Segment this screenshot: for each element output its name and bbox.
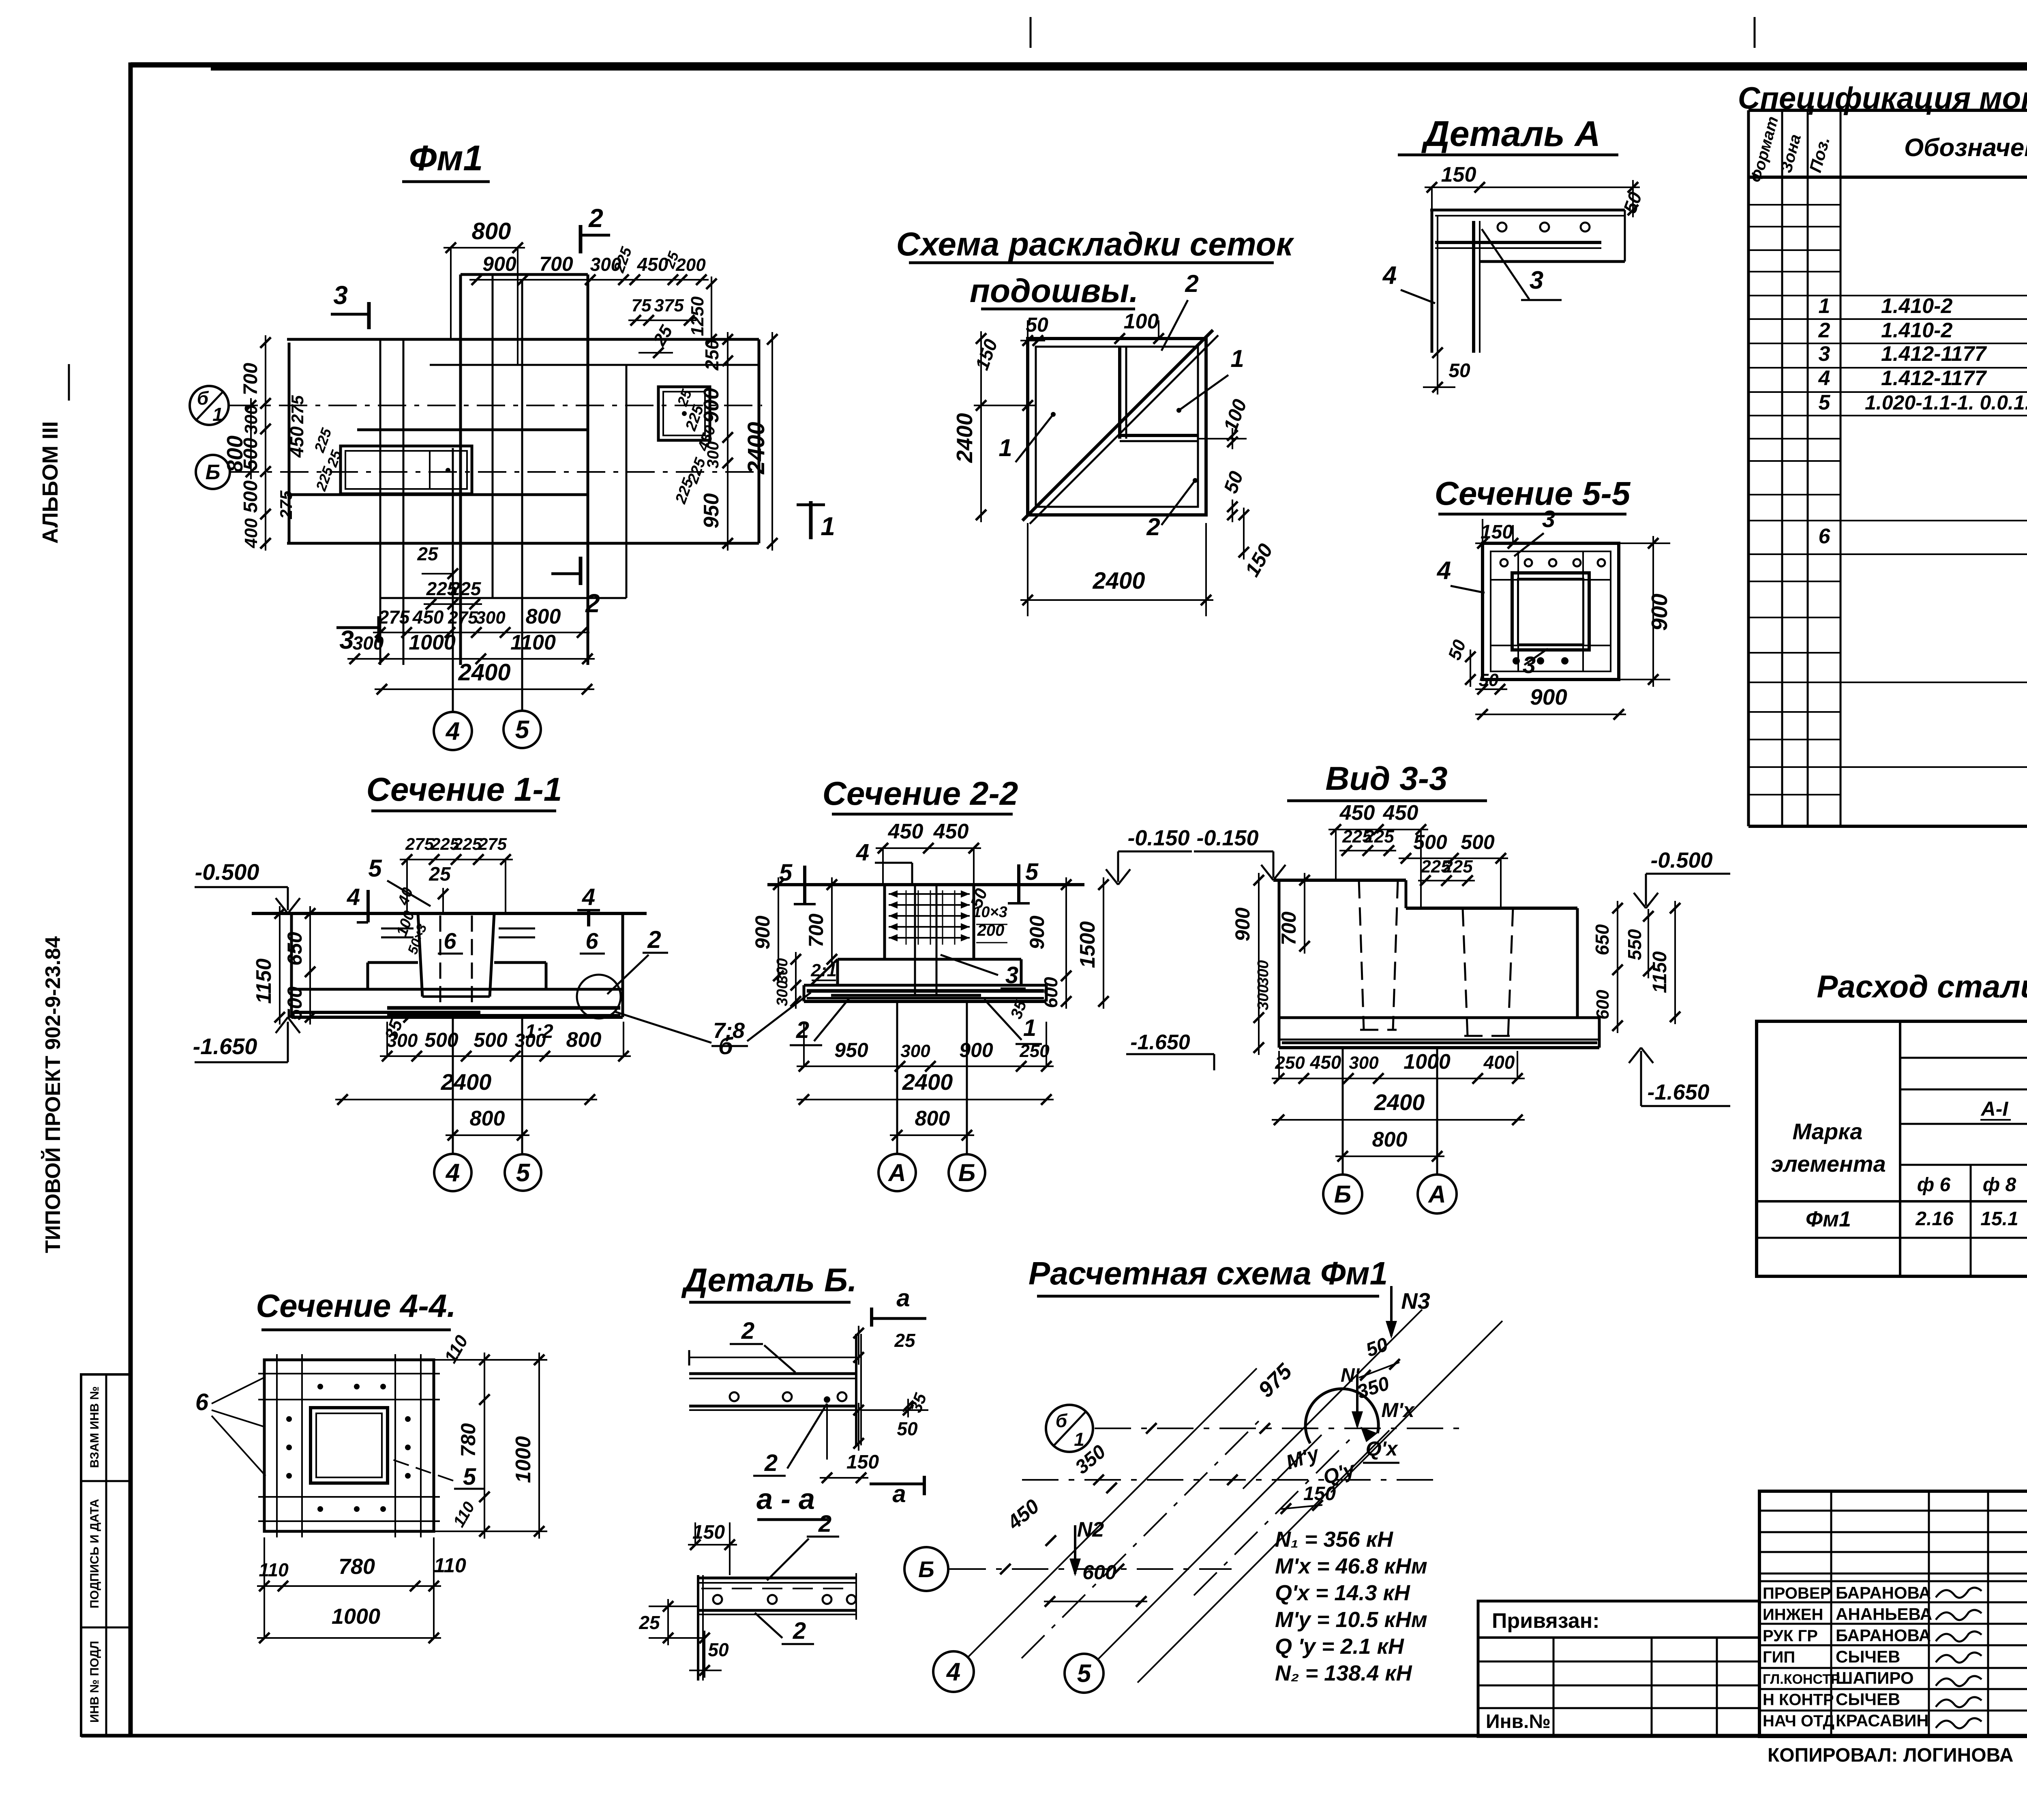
plan axis circle 5 [504,711,541,748]
svg-text:элемента: элемента [1771,1151,1886,1177]
svg-text:4: 4 [946,1658,960,1686]
svg-text:1: 1 [1074,1429,1084,1450]
section 2-2 bottom chain 950 300 900 250 [797,1022,1054,1072]
section 1-1 bottom chain 300 500 500 300 800 [380,1022,631,1061]
svg-text:Сечение 5-5: Сечение 5-5 [1435,475,1631,512]
svg-text:1.410-2: 1.410-2 [1881,319,1952,342]
svg-text:Q 'у = 2.1 кН: Q 'у = 2.1 кН [1275,1634,1404,1659]
svg-text:6: 6 [1819,525,1831,548]
plan dim chain 900 700 300 225 450 25 200 [469,244,709,285]
detail A label 3 [1482,229,1562,300]
svg-text:75: 75 [632,296,651,315]
svg-text:Б: Б [918,1556,934,1582]
spec row item 6 [1819,525,2027,548]
view 3-3 elevation -0.150 left [1194,826,1286,880]
section 5-5 inner hole [1512,573,1589,650]
svg-text:2: 2 [764,1450,778,1476]
view 3-3 hidden pedestal left [1359,880,1398,1030]
svg-text:Марка: Марка [1793,1119,1863,1144]
section 1-1 small dims 40 100 [393,885,430,956]
svg-text:БАРАНОВА: БАРАНОВА [1836,1626,1931,1645]
svg-text:1100: 1100 [510,631,556,654]
svg-text:25: 25 [417,543,439,564]
detail B dim 25 right [853,1326,916,1365]
calc schema force N2 [1069,1518,1104,1576]
svg-text:300: 300 [1349,1053,1379,1073]
view 3-3 title [1287,760,1487,801]
svg-text:5: 5 [516,1159,531,1187]
mesh layout square [1028,339,1206,515]
section 4-4 inner hole [311,1408,388,1483]
svg-text:150: 150 [1441,163,1476,187]
svg-text:3: 3 [1005,962,1018,988]
svg-text:1.412-1177: 1.412-1177 [1881,342,1987,366]
detail B label 2 bottom [755,1613,814,1644]
svg-text:2400: 2400 [952,413,977,463]
svg-text:Сечение 2-2: Сечение 2-2 [823,775,1018,812]
plan bottom chain 300 1000 1100 [347,631,595,664]
svg-text:Инв.№: Инв.№ [1486,1711,1551,1732]
svg-text:275: 275 [378,607,410,628]
svg-text:А: А [887,1159,906,1186]
detail B lower rebar dots [713,1595,856,1604]
section 4-4 mesh wires [258,1354,440,1537]
svg-text:800: 800 [526,605,561,628]
svg-text:275: 275 [288,395,307,424]
svg-text:N2: N2 [1077,1518,1104,1541]
svg-text:Расчетная схема Фм1: Расчетная схема Фм1 [1028,1255,1388,1291]
svg-text:500: 500 [240,480,261,513]
svg-text:Обозначение: Обозначение [1904,134,2027,162]
section 2-2 pedestal mesh grid [889,890,970,945]
svg-text:800: 800 [1372,1128,1408,1151]
svg-text:2:1: 2:1 [810,960,837,980]
svg-text:ф 8: ф 8 [1983,1174,2016,1196]
svg-text:900: 900 [1026,915,1048,950]
mesh layout dim 2400 bottom [1020,523,1213,616]
svg-text:900: 900 [751,915,774,950]
svg-text:225: 225 [450,578,482,599]
title block stamp outer [1759,1491,2027,1736]
detail B upper piece [688,1334,861,1445]
section 1-1 detail circle Б [577,975,734,1059]
view 3-3 bottom chain 250 450 300 1000 400 [1272,1050,1525,1084]
section 1-1 ground line [252,912,647,915]
svg-text:-0.150: -0.150 [1127,826,1189,850]
svg-text:4: 4 [856,839,869,866]
svg-text:-0.500: -0.500 [195,859,259,885]
section 1-1 label 5 [368,855,431,906]
svg-text:РУК ГР: РУК ГР [1763,1627,1818,1645]
detail A horizontal mesh bars [1430,210,1625,262]
view 3-3 left dims 900 700 300 300 [1231,873,1310,1055]
svg-text:Схема раскладки сеток: Схема раскладки сеток [896,226,1294,263]
svg-text:а: а [896,1284,910,1312]
left margin text Альбом III [38,364,69,544]
svg-text:4: 4 [445,718,460,746]
svg-text:800: 800 [915,1107,950,1130]
section 5-5 dim 50 left bottom [1444,637,1476,687]
svg-text:КРАСАВИН: КРАСАВИН [1836,1711,1929,1730]
plan right dim 1250 [688,277,717,347]
section 2-2 slab rebars [807,991,1044,998]
section 4-4 bottom chain 1000 [257,1604,441,1643]
svg-text:300: 300 [774,958,791,984]
plan section mark 3 left [331,281,369,329]
mesh layout title line2 [970,272,1138,309]
calc schema dim 150 [1281,1483,1336,1514]
section 5-5 dim 50 bottom [1475,670,1507,695]
svg-text:800: 800 [566,1028,602,1052]
view 3-3 circle А [1418,1175,1457,1213]
plan section mark 1 right [797,501,835,541]
svg-text:3: 3 [333,281,348,310]
plan bottom dim 25 [417,543,458,579]
svg-text:2: 2 [647,926,661,953]
plan axis line Б [231,471,762,473]
svg-text:50: 50 [708,1639,729,1660]
svg-text:550: 550 [1624,929,1645,960]
mesh layout title line1 [896,226,1294,263]
svg-text:50: 50 [897,1418,918,1439]
calc schema axis circle 4 [933,1651,974,1692]
svg-text:400: 400 [241,518,261,549]
detail B subtitle a-a [756,1483,828,1520]
svg-text:900: 900 [1231,907,1254,941]
svg-text:5: 5 [463,1464,476,1490]
plan dim 800 between axes [222,398,256,479]
plan right outer dim 2400 [743,332,778,551]
svg-text:БАРАНОВА: БАРАНОВА [1836,1583,1931,1602]
svg-text:1: 1 [1023,1015,1036,1041]
plan slab outline [287,274,759,665]
svg-text:М'у = 10.5 кНм: М'у = 10.5 кНм [1275,1608,1427,1632]
svg-text:4: 4 [1436,557,1451,585]
svg-text:150: 150 [1303,1483,1336,1505]
svg-text:-0.150: -0.150 [1196,826,1258,850]
section 2-2 dim 700 left inner [805,877,837,967]
svg-text:5: 5 [1819,391,1831,414]
svg-text:Деталь А: Деталь А [1421,114,1601,154]
detail B label 2 lower [753,1404,827,1476]
svg-text:2: 2 [1818,319,1830,342]
svg-text:б: б [1056,1410,1068,1431]
svg-text:450: 450 [1383,801,1418,825]
svg-text:АНАНЬЕВА: АНАНЬЕВА [1836,1605,1932,1624]
mesh layout dim 150 right bottom [1238,508,1277,581]
steel table data row [1806,1207,2027,1231]
svg-text:2400: 2400 [458,659,510,686]
mesh layout dim 2400 left [952,331,986,522]
section 4-4 right chain 110 780 110 [434,1332,547,1539]
section 1-1 elevation -0.500 [195,859,300,913]
svg-text:100: 100 [1124,310,1159,333]
calc schema force N prime [1341,1365,1363,1429]
svg-text:2: 2 [1146,513,1160,540]
svg-text:300: 300 [353,632,384,654]
svg-text:1500: 1500 [1076,921,1099,968]
section 1-1 label 2 with leader [607,926,668,994]
svg-text:Вид 3-3: Вид 3-3 [1325,760,1447,797]
svg-text:1000: 1000 [1403,1050,1451,1074]
svg-text:А: А [1427,1181,1446,1208]
section 1-1 left dims 650 500 [283,906,315,1025]
detail B mark a bottom [870,1476,925,1507]
plan axis circle б/1 [190,386,229,425]
svg-text:1000: 1000 [332,1604,380,1629]
svg-text:ГЛ.КОНСТР: ГЛ.КОНСТР [1763,1672,1840,1687]
svg-text:25: 25 [639,1612,660,1633]
svg-text:ф 6: ф 6 [1917,1174,1951,1196]
svg-text:М'х = 46.8 кНм: М'х = 46.8 кНм [1275,1554,1427,1578]
svg-text:М'х: М'х [1381,1399,1415,1421]
view 3-3 body outline [1273,880,1599,1048]
svg-text:500: 500 [474,1029,508,1051]
svg-text:2: 2 [741,1318,754,1344]
svg-text:50: 50 [1479,670,1499,690]
section 2-2 slab [804,985,1046,1001]
view 3-3 hidden pedestal right [1463,908,1513,1036]
calc schema dim 450 [1003,1495,1056,1546]
svg-text:900: 900 [1647,594,1672,631]
section 1-1 dim 800 [446,1107,529,1140]
section 1-1 left dim 1150 [252,906,285,1025]
section 2-2 vertical rebars [915,886,936,995]
svg-text:400: 400 [1483,1052,1515,1073]
svg-text:450: 450 [1310,1052,1341,1073]
detail B dim 150 lower [688,1522,737,1575]
view 3-3 chain 500 500 [1399,831,1508,908]
plan section mark 3 bottom [336,616,379,654]
svg-text:110: 110 [434,1554,466,1577]
mesh layout label 1 left [999,412,1056,462]
detail A label 4 [1382,262,1435,303]
svg-text:Б: Б [206,461,221,484]
section 2-2 mark 5 right [1008,859,1039,903]
plan bottom chain 225 225 [424,578,482,609]
svg-text:2.16: 2.16 [1915,1208,1954,1230]
section 2-2 elevation -0.150 right [1106,826,1192,885]
calc schema axis circle 5 [1065,1654,1103,1693]
calc schema title [1028,1255,1388,1296]
svg-text:2: 2 [818,1511,831,1537]
svg-text:3: 3 [1819,342,1830,366]
plan axis circle 4 [434,712,472,750]
view 3-3 chain 450 450 [1328,801,1428,908]
svg-text:300: 300 [476,608,506,628]
svg-text:N3: N3 [1401,1288,1430,1314]
svg-text:N₁ = 356 кН: N₁ = 356 кН [1275,1527,1393,1552]
detail B label 2 lower piece [767,1511,839,1580]
detail A dim 50 right [1480,180,1646,217]
detail B lower piece [697,1573,856,1681]
svg-text:2: 2 [796,1017,809,1043]
section 2-2 circle Б [949,1154,985,1191]
steel table grid [1757,1021,2027,1276]
section 2-2 circle А [879,1154,916,1191]
mesh layout middle vertical band [1120,347,1126,439]
calc schema moment arc M'x [1305,1389,1415,1443]
detail B title [681,1262,857,1302]
section 2-2 dims right 900 1500 600 35 [1007,877,1109,1021]
calc schema equations [1275,1527,1427,1685]
section 5-5 dim 150 [1475,519,1520,549]
section 1-1 elevation -1.650 [193,1017,300,1062]
plan pedestal A (left) [341,446,472,494]
svg-text:подошвы.: подошвы. [970,272,1138,309]
calc schema dim 975 [1253,1359,1297,1402]
svg-text:1.410-2: 1.410-2 [1881,294,1952,318]
section 5-5 mesh dots [1500,559,1605,665]
svg-text:780: 780 [339,1554,375,1579]
svg-text:-0.500: -0.500 [1650,848,1712,872]
svg-text:450: 450 [286,426,307,458]
view 3-3 elevation -0.500 right [1634,848,1730,908]
svg-text:450: 450 [1339,801,1375,825]
calc schema dim 350 left [1071,1441,1117,1493]
section 1-1 dim 25 [429,864,451,913]
plan column leader lines [452,448,454,712]
svg-text:1150: 1150 [1649,951,1671,993]
svg-text:2: 2 [588,204,603,233]
svg-text:4: 4 [1818,367,1830,390]
svg-text:7;8: 7;8 [713,1018,745,1043]
svg-text:25: 25 [429,864,451,885]
plan right small dims 225 450 225 [672,387,719,506]
plan left dim chain 700 300 500 500 400 [240,335,271,551]
plan pedestal B (upper right) [658,387,710,440]
section 1-1 circle 4 [434,1154,471,1191]
svg-text:200: 200 [675,255,706,275]
svg-text:1150: 1150 [252,958,276,1004]
view 3-3 elevation -1.650 right [1629,1048,1730,1106]
section 1-1 leaders to circles [453,1017,522,1154]
svg-text:300: 300 [387,1030,418,1051]
svg-text:ТИПОВОЙ ПРОЕКТ 902-9-23.84: ТИПОВОЙ ПРОЕКТ 902-9-23.84 [41,936,65,1253]
section 4-4 mesh dots [286,1384,411,1512]
detail B dim 50 [853,1403,918,1451]
svg-text:2400: 2400 [1374,1089,1425,1115]
section 2-2 step and slope [810,959,1021,985]
view 3-3 right dims 650 550 1150 600 [1592,901,1680,1033]
svg-text:275: 275 [276,490,296,519]
section 1-1 dim 35 [381,1012,414,1042]
section 1-1 mark 4 right [577,884,600,926]
section 5-5 dim 900 right [1619,536,1672,687]
svg-text:700: 700 [805,913,827,948]
svg-text:900: 900 [482,253,516,275]
detail B dim 50 bottom [689,1631,729,1678]
svg-text:650: 650 [1592,924,1613,955]
svg-text:225: 225 [1442,857,1473,877]
svg-text:450: 450 [412,607,444,628]
svg-text:4: 4 [582,884,595,910]
svg-text:а - а: а - а [756,1483,815,1516]
section 2-2 label 4 [856,839,912,886]
mesh layout dim 50 top [1020,313,1048,357]
svg-text:800: 800 [470,1107,505,1130]
svg-text:2400: 2400 [902,1069,953,1095]
svg-text:500: 500 [1461,831,1495,853]
section 2-2 pedestal [885,885,974,959]
title block bottom annotations [1768,1745,2027,1769]
mesh layout dim 100 top [1112,310,1166,344]
mesh layout dim 100 right [1198,397,1251,449]
svg-text:700: 700 [539,253,573,275]
svg-text:600: 600 [1040,977,1061,1008]
svg-text:2400: 2400 [441,1069,492,1095]
svg-text:Q'х: Q'х [1366,1437,1399,1460]
plan axis circle Б [196,455,230,489]
view 3-3 chain 225 225 [1339,827,1396,856]
spec table grid [1748,110,2027,826]
svg-text:2400: 2400 [1092,568,1145,594]
section 1-1 title [366,771,562,811]
svg-text:500: 500 [240,438,261,470]
section 5-5 title [1435,475,1631,514]
section 2-2 title [823,775,1018,814]
plan left small dims 450 275 225 [276,395,345,519]
svg-text:1: 1 [821,512,835,541]
svg-text:Фм1: Фм1 [1806,1207,1851,1231]
svg-text:б: б [197,388,209,409]
calc schema dim 50 [1359,1333,1400,1381]
spec table headers [1747,114,2027,184]
plan bottom dim 2400 [375,659,594,695]
section 2-2 leaders to circles [897,1001,967,1154]
svg-text:5: 5 [1077,1660,1092,1688]
section 1-1 mark 4 left [347,884,368,922]
svg-text:300: 300 [515,1030,546,1051]
svg-text:Деталь Б.: Деталь Б. [681,1262,857,1299]
plan title Фм1 [402,138,490,182]
svg-text:ШАПИРО: ШАПИРО [1836,1668,1914,1687]
svg-text:700: 700 [240,363,261,395]
view 3-3 elevation -1.650 left [1126,1031,1214,1070]
svg-text:2400: 2400 [743,422,769,474]
detail B label 2 top [730,1318,795,1372]
svg-text:300: 300 [1255,984,1272,1010]
detail A title [1398,114,1618,155]
svg-text:500: 500 [283,986,306,1020]
svg-text:1: 1 [1230,345,1244,372]
svg-text:225: 225 [453,834,482,853]
svg-text:4: 4 [1382,262,1397,289]
svg-text:СЫЧЕВ: СЫЧЕВ [1836,1690,1900,1709]
section 4-4 outer square [264,1360,434,1531]
svg-text:275: 275 [405,834,434,853]
section 2-2 dim 800 [890,1107,974,1140]
mesh layout label 2 bottom [1146,478,1198,540]
view 3-3 dim 800 [1335,1128,1444,1162]
svg-text:950: 950 [700,493,723,529]
section 1-1 circle 5 [505,1154,541,1191]
section 2-2 top chain 450 450 [876,820,981,885]
svg-text:НАЧ ОТД: НАЧ ОТД [1763,1712,1834,1730]
section 5-5 square [1483,543,1619,680]
section 2-2 dims 300 300 left [774,952,801,1009]
svg-text:1: 1 [999,434,1012,461]
svg-text:600: 600 [1593,990,1613,1020]
section 1-1 dim 2400 [335,1069,597,1105]
svg-text:-1.650: -1.650 [1647,1080,1709,1104]
svg-text:-1.650: -1.650 [1130,1031,1190,1054]
title block signatures [1936,1588,1982,1728]
view 3-3 dim 2400 [1272,1089,1525,1125]
detail B upper rebar dots [730,1392,846,1403]
svg-text:1250: 1250 [688,296,707,336]
svg-text:ПОДПИСЬ И ДАТА: ПОДПИСЬ И ДАТА [88,1499,101,1608]
